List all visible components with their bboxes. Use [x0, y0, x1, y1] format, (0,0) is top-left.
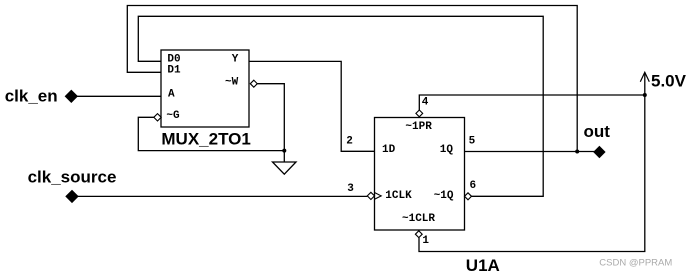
terminal clk_source diamond — [66, 190, 78, 202]
svg-text:5: 5 — [469, 135, 476, 147]
svg-text:1Q: 1Q — [440, 144, 454, 156]
mux U2 MUX_2TO1 body — [161, 50, 249, 127]
svg-text:clk_en: clk_en — [5, 87, 58, 106]
ground — [273, 162, 297, 174]
terminal out diamond — [594, 147, 605, 158]
svg-text:~1Q: ~1Q — [434, 190, 454, 202]
svg-text:CSDN @PPRAM: CSDN @PPRAM — [599, 257, 672, 268]
svg-text:out: out — [584, 122, 611, 141]
wire clk_en to A — [71, 95, 161, 97]
svg-text:~1PR: ~1PR — [405, 121, 432, 133]
bubble ~1CLR pin — [415, 231, 422, 238]
svg-text:5.0V: 5.0V — [651, 72, 687, 91]
svg-text:4: 4 — [422, 97, 429, 109]
svg-text:~G: ~G — [166, 110, 180, 122]
bubble ~G pin — [154, 114, 161, 121]
svg-text:A: A — [168, 89, 175, 101]
wire 1Q output to out terminal — [465, 151, 596, 153]
wire net 2 Y to 1D — [249, 61, 375, 151]
svg-text:2: 2 — [346, 135, 353, 147]
svg-text:1: 1 — [422, 235, 429, 247]
wire VCC to ~1CLR — [419, 73, 645, 252]
svg-text:~1CLR: ~1CLR — [402, 213, 435, 225]
junction dot at VCC net — [643, 93, 647, 97]
power 5.0V arrow — [640, 72, 649, 82]
svg-text:~W: ~W — [225, 77, 239, 89]
wire net1 1Q feedback to D1 (outer loop) — [127, 6, 577, 152]
svg-text:MUX_2TO1: MUX_2TO1 — [161, 130, 250, 149]
junction dot at out node — [575, 150, 579, 154]
svg-text:clk_source: clk_source — [28, 167, 117, 186]
svg-text:D1: D1 — [167, 64, 181, 76]
svg-text:1D: 1D — [382, 144, 396, 156]
svg-text:3: 3 — [347, 183, 354, 195]
wire net ~1Q feedback to D0 (inner loop) — [138, 16, 543, 196]
bubble ~W pin — [250, 80, 257, 87]
wire ~W to ground — [257, 84, 284, 162]
wire net 3 clk_source to 1CLK — [72, 195, 367, 197]
junction dot at ground net — [282, 149, 286, 153]
wire net ~1PR to VCC — [419, 95, 645, 110]
wire ~G to ground net — [138, 117, 284, 150]
flip-flop U1A body — [375, 118, 465, 231]
bubble ~1Q pin — [465, 193, 472, 200]
bubble 1CLK pin — [367, 192, 374, 199]
svg-text:Y: Y — [232, 54, 239, 66]
clock wedge 1CLK — [375, 193, 382, 200]
svg-text:1CLK: 1CLK — [385, 190, 412, 202]
terminal clk_en diamond — [65, 90, 77, 102]
bubble ~1PR pin — [416, 110, 423, 117]
svg-text:6: 6 — [470, 180, 477, 192]
svg-text:U1A: U1A — [466, 256, 500, 275]
